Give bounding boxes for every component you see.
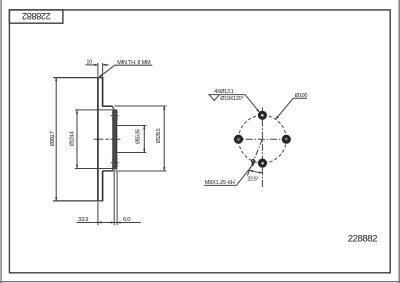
bolt hole section upper xyxy=(111,113,119,119)
dimension 33.9 and 6.0 xyxy=(77,172,141,225)
dimension D135.5 xyxy=(103,106,166,171)
M8 set screw hole xyxy=(252,160,255,163)
horizontal centerline xyxy=(234,138,291,140)
disc band right face upper xyxy=(102,77,104,106)
title box top-left xyxy=(9,10,63,23)
callout 4X D13.1 / D19X120 xyxy=(208,95,259,113)
svg-text:6.0: 6.0 xyxy=(123,217,130,223)
bolt hole top xyxy=(258,111,266,119)
disc band left face xyxy=(97,77,99,200)
page bottom edge xyxy=(0,281,400,283)
svg-text:10: 10 xyxy=(86,59,92,65)
svg-text:Ø100: Ø100 xyxy=(295,93,308,99)
angular dimension 22.5 xyxy=(250,170,263,173)
svg-text:M8X1.25-6H: M8X1.25-6H xyxy=(205,180,235,186)
svg-text:33.9: 33.9 xyxy=(78,217,88,223)
bolt hole right xyxy=(282,135,290,143)
hat step upper xyxy=(103,105,113,107)
svg-text:22.5°: 22.5° xyxy=(247,177,258,183)
callout M8X1.25-6H xyxy=(204,163,254,186)
dimension D124.4 xyxy=(75,110,113,169)
hat chamfer lower xyxy=(112,167,114,171)
dimension 10 xyxy=(85,63,109,77)
disc band bottom edge xyxy=(53,200,103,202)
svg-text:4XØ13.1: 4XØ13.1 xyxy=(214,89,233,95)
hat step lower xyxy=(103,170,113,172)
svg-text:Ø260.7: Ø260.7 xyxy=(50,131,56,146)
svg-text:Ø19X120°: Ø19X120° xyxy=(220,96,243,102)
hub bar xyxy=(113,109,117,169)
svg-text:Ø124.4: Ø124.4 xyxy=(70,131,76,146)
leader MIN TH. 8 MM xyxy=(99,65,153,77)
callout D100 xyxy=(276,98,307,119)
disc band right face lower xyxy=(102,171,104,201)
dimension D55.05 xyxy=(117,126,146,153)
hat chamfer upper xyxy=(112,106,114,110)
bolt circle xyxy=(239,115,287,163)
disc band top edge xyxy=(53,77,103,79)
bolt hole bottom xyxy=(258,159,266,167)
section axis centerline xyxy=(94,138,121,140)
bolt hole left xyxy=(234,135,242,143)
svg-text:228882: 228882 xyxy=(22,11,51,21)
22.5deg radial centerline xyxy=(247,139,263,176)
vertical centerline xyxy=(261,107,263,188)
dimension D260.7 xyxy=(55,77,57,200)
page left edge xyxy=(0,0,2,283)
page right edge xyxy=(398,0,400,283)
svg-text:228882: 228882 xyxy=(348,233,377,244)
svg-text:Ø55.05: Ø55.05 xyxy=(135,129,141,144)
svg-text:MIN TH. 8 MM: MIN TH. 8 MM xyxy=(117,60,151,66)
bolt hole section lower xyxy=(111,160,119,166)
svg-text:Ø135.5: Ø135.5 xyxy=(156,128,162,143)
